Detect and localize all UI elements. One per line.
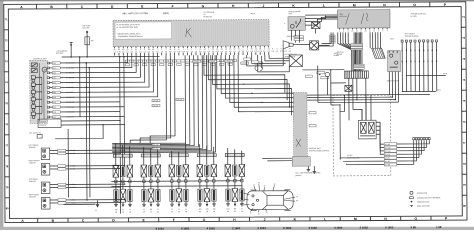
svg-text:1B: 1B [213,211,215,213]
label column left of harness [318,32,336,46]
junction dots on trunk crossings [79,56,90,93]
svg-text:O: O [414,217,417,221]
svg-text:J: J [264,218,266,222]
wire hydraulic unit row 4 [49,56,140,78]
svg-text:0.5 BR/GE: 0.5 BR/GE [66,107,74,109]
relay K14 [284,17,305,31]
handwritten X mark on strip [296,139,301,147]
svg-text:0.5 GE: 0.5 GE [70,153,75,155]
svg-text:M: M [354,217,357,221]
svg-text:0.5 GE/SW: 0.5 GE/SW [66,77,74,79]
svg-text:0.5: 0.5 [276,51,278,53]
wire harness run to ASC valve block [208,55,287,101]
svg-text:1B: 1B [206,211,208,213]
svg-text:4 1602: 4 1602 [334,226,343,230]
wire hydraulic unit row 12 [50,116,125,118]
svg-text:0 1602: 0 1602 [385,225,394,229]
car locator labels [240,182,298,215]
svg-text:3: 3 [378,30,379,32]
tie wire lower left [55,124,104,139]
svg-text:9: 9 [382,30,383,32]
small labels junction area [317,71,329,78]
wheel speed sensor B4 right rear [29,193,125,209]
svg-text:0 1601: 0 1601 [258,226,267,230]
svg-text:0.5 SW: 0.5 SW [153,105,159,107]
svg-text:BY SIDE: BY SIDE [410,16,416,18]
svg-text:0.5 RT: 0.5 RT [385,158,390,160]
svg-text:O: O [413,3,416,7]
relay K2 in hydraulic unit [31,69,37,73]
svg-text:0.5 SW: 0.5 SW [70,187,76,189]
pressure control valve assembly Y10 [359,120,377,139]
note check engine left [288,11,300,15]
wire harness run to valve row [112,55,207,150]
svg-text:X34: X34 [53,112,56,114]
svg-text:0.5 BL/RT: 0.5 BL/RT [66,87,73,89]
wire hydraulic unit row 3 [49,56,136,73]
svg-text:0.5 SW/VI: 0.5 SW/VI [66,82,74,84]
svg-text:31: 31 [157,209,159,211]
wires into valve assembly [340,95,371,159]
svg-text:0.5 SW: 0.5 SW [177,99,183,101]
svg-text:1B: 1B [129,211,131,213]
junction dots staircase [243,83,263,103]
note aux socket [405,32,419,37]
svg-text:15: 15 [253,184,255,186]
wire identification label row [125,60,236,66]
svg-text:CONTROL UNIT: CONTROL UNIT [309,148,321,150]
svg-text:X45: X45 [53,63,56,65]
wire harness run to ASC valve block [238,55,303,153]
svg-text:KL.15 ABS CONTROL 30/31: KL.15 ABS CONTROL 30/31 [117,26,139,29]
page scan shadow top edge [0,0,474,1]
terminal label stack right [384,143,397,167]
svg-text:5 88: 5 88 [411,225,417,229]
wire harness run to valve row [112,55,190,145]
connector X253 grid [344,71,368,78]
svg-text:0.5 SW: 0.5 SW [210,61,216,63]
wires from pins to actuator [247,49,290,72]
solenoid valve Y6 in hydraulic unit [31,112,42,118]
ground bus wire bottom left [64,203,96,205]
svg-text:0.5 SW: 0.5 SW [153,144,159,146]
note asc pressure control valve [295,171,320,177]
relay feed pin labels right of unit [271,48,291,53]
fan wires up to connector row [397,138,431,165]
wire trunk vertical sensor lines [86,63,90,201]
cluster pin labels [339,28,388,33]
svg-text:0.5 SW/VI: 0.5 SW/VI [66,92,74,94]
svg-text:45.0: 45.0 [437,89,440,91]
svg-text:LEFT: LEFT [288,13,292,15]
wire harness run to valve row [112,55,203,149]
svg-text:2 1602: 2 1602 [360,225,369,229]
legend connector symbol [410,191,428,195]
svg-text:4 1601: 4 1601 [207,226,216,230]
pin wire stubs [115,52,269,56]
wire trunk vertical A-line [79,57,81,117]
wire label stack A [351,43,363,49]
grid column letters top band [20,2,447,9]
wire hydraulic unit row 11 [50,111,120,113]
svg-text:SENSOR: SENSOR [29,196,37,198]
svg-text:0.5 GE: 0.5 GE [70,200,75,202]
actuator motor M2 [305,41,330,50]
wire trunk vertical left [67,129,69,197]
wire trunk vertical B-line [119,57,122,214]
vertical feeder right of strip [318,65,331,105]
grid column letters bottom band [21,216,448,223]
handwritten mark K on control unit [186,28,192,37]
svg-text:150: 150 [115,209,118,211]
relay pin labels [294,36,304,41]
wire harness from cluster left group [338,32,362,71]
svg-text:0.5 GE: 0.5 GE [70,150,75,152]
solenoid valve chain V14 [232,149,238,213]
svg-text:0.5 BR: 0.5 BR [385,144,391,146]
wheel speed sensor B3 left rear [29,177,125,193]
car top view locator [247,190,293,211]
svg-text:31: 31 [129,209,131,211]
svg-text:F: F [173,218,175,222]
solenoid valve chain V13 [225,148,231,213]
wire feeder to valve collectors [140,55,171,143]
svg-text:CHECK ENGINE: CHECK ENGINE [288,11,300,13]
svg-text:0.5: 0.5 [280,51,282,53]
connector arcs X18b [255,66,263,71]
wires inside hydraulic unit [39,63,47,121]
svg-text:SENSOR: SENSOR [29,181,37,183]
label terminal 30 lead [56,50,67,55]
svg-text:15: 15 [296,196,298,198]
note inside valve boundary [347,155,360,159]
svg-text:1B: 1B [185,211,187,213]
svg-text:150: 150 [213,209,216,211]
wire bus terminal 30 [62,56,160,58]
ABS control unit A35 [113,20,269,47]
grid row numbers left band [4,18,10,210]
strip top label [305,75,312,77]
svg-text:1B: 1B [115,212,117,214]
svg-text:30: 30 [240,198,242,200]
instrument cluster module [337,10,390,28]
svg-text:SEE FUSE: SEE FUSE [83,25,91,27]
svg-text:LEFT FRONT: LEFT FRONT [29,145,39,147]
svg-text:45 W: 45 W [443,73,447,75]
svg-text:5: 5 [343,31,344,33]
svg-text:0.5 GN/WS: 0.5 GN/WS [66,67,74,69]
solenoid valve chain V4 [141,147,147,213]
svg-text:55: 55 [296,200,298,202]
wire harness run to valve row [112,55,186,143]
note FU potential block [203,12,214,19]
svg-text:G: G [203,218,206,222]
solenoid valve Y5 in hydraulic unit [31,105,42,111]
footer fold references [156,225,442,231]
svg-text:0.5 GN: 0.5 GN [70,184,76,186]
svg-text:B12: B12 [227,208,230,210]
svg-text:OPTIL HP: OPTIL HP [339,16,346,18]
wire harness run to valve row [112,55,195,146]
valve cluster connector bar 3 [169,151,188,156]
wire label stack B [353,64,364,69]
svg-text:0.5 BR: 0.5 BR [385,164,391,166]
svg-text:55: 55 [266,212,268,214]
svg-text:CONNECTOR: CONNECTOR [417,193,428,195]
wire harness run to ASC valve block [217,55,292,116]
wire hydraulic unit row 6 [49,55,149,87]
solenoid valve chain V12 [211,147,217,213]
wire hydraulic unit row 1 [49,56,127,63]
svg-text:150: 150 [206,209,209,211]
solenoid valve Y1 in hydraulic unit [31,76,42,82]
tie wire actuator to X253 [302,69,344,71]
splice terminal 30 [70,42,73,57]
wires into label stack [340,122,384,165]
wire trunk vertical B2-line [123,57,126,167]
svg-text:G: G [202,4,205,8]
svg-text:21: 21 [360,30,362,32]
svg-text:6 1601: 6 1601 [181,226,190,230]
solenoid valve chain V7 [169,151,175,213]
wire connector labels on left rows [47,62,60,119]
solenoid valve chain V8 [176,152,182,213]
note asc pedal [334,52,339,57]
svg-text:2 1601: 2 1601 [232,226,241,230]
wire harness run to ASC valve block [204,55,285,93]
wire labels actuator feeds [244,58,259,63]
solenoid valve chain V15 [239,151,245,213]
svg-text:0.5 BL/RT: 0.5 BL/RT [67,116,74,118]
svg-text:SENSOR: SENSOR [29,162,37,164]
svg-text:0.5 GN/WS: 0.5 GN/WS [66,63,74,65]
actuator box with cross [289,55,302,67]
svg-text:0.5 BR: 0.5 BR [70,168,76,170]
svg-text:WIRE JUNCTION: WIRE JUNCTION [417,206,431,208]
wires X1307 down [389,72,398,103]
wire harness run to valve row [112,55,199,147]
svg-text:0.5: 0.5 [284,51,286,53]
solenoid valve Y4 in hydraulic unit [31,97,42,103]
wire hydraulic unit row 9 [50,101,120,103]
valve cluster connector bar 5 [225,151,244,156]
svg-text:M: M [44,70,46,72]
svg-text:0.5 GN/WS: 0.5 GN/WS [66,112,74,114]
wheel speed sensor B1 left front [29,144,125,159]
trailer bus wires [402,73,448,92]
svg-text:J: J [262,4,264,8]
hydraulic unit with pump motor [30,57,48,123]
svg-text:X51: X51 [53,107,56,109]
svg-text:M6: M6 [234,208,236,210]
connector X255 plate [38,119,125,128]
svg-text:0.5 SW: 0.5 SW [385,151,391,153]
wire harness run to valve row [112,55,212,151]
svg-text:THE PRESSURE CONTROL: THE PRESSURE CONTROL [309,150,330,152]
solenoid valve chain V6 [155,150,161,214]
note control unit pressure [309,148,330,153]
svg-text:8: 8 [348,31,349,33]
svg-text:1 88: 1 88 [436,225,442,229]
page scan shadow left edge [0,0,3,230]
svg-text:15: 15 [258,213,260,215]
svg-text:28: 28 [365,30,367,32]
note actuator asc [285,53,298,58]
wire hydraulic unit row 8 [49,55,157,97]
svg-text:0.5 BR/GE: 0.5 BR/GE [66,102,74,104]
pump motor M [42,67,47,72]
strip pin labels [309,112,316,127]
svg-text:X42: X42 [53,77,56,79]
svg-text:L: L [324,217,326,221]
svg-text:55: 55 [240,192,242,194]
solenoid valve chain V9 [183,143,189,213]
legend terminal symbol [410,196,441,199]
wire gauge labels under pins [113,51,270,54]
svg-text:31: 31 [122,209,124,211]
svg-text:18: 18 [356,31,358,33]
svg-text:20: 20 [373,30,375,32]
diode box K14a [311,22,320,34]
svg-text:(MRS): (MRS) [163,13,169,15]
svg-text:150: 150 [199,209,202,211]
wire harness run to ASC valve block [234,55,301,146]
svg-text:0.5 BR: 0.5 BR [70,165,76,167]
wire harness run to ASC valve block [212,55,289,108]
wire hydraulic unit row 2 [49,56,132,68]
svg-text:X17: X17 [53,117,56,119]
solenoid valve Y3 in hydraulic unit [31,90,42,96]
svg-text:30: 30 [264,185,266,187]
svg-text:31: 31 [95,210,97,212]
wire harness run to ASC valve block [225,55,296,131]
svg-text:L: L [323,4,325,8]
tie wires right middle [307,94,430,105]
throttle actuator horn [283,41,305,49]
svg-text:30: 30 [274,184,276,186]
svg-text:31: 31 [250,212,252,214]
svg-text:CONNECT: CONNECT [39,125,47,127]
svg-text:X59: X59 [53,92,56,94]
svg-text:6 1602: 6 1602 [309,226,318,230]
svg-text:MRS: MRS [339,14,343,16]
svg-text:31: 31 [178,209,180,211]
valve cluster connector bar 4 [197,151,216,156]
connector X339 pin number labels [114,46,270,51]
solenoid valve chain V10 [197,144,203,213]
wheel speed sensor B2 right front [29,160,125,175]
svg-text:0.5 SW: 0.5 SW [385,147,391,149]
note see fuse box [83,25,91,29]
valve supply bus wire [111,185,242,188]
svg-text:0.5 SW: 0.5 SW [226,61,232,63]
svg-text:0.5 SW: 0.5 SW [153,100,159,102]
wires relay down to actuator [292,30,300,42]
solenoid valve chain V3 [127,146,133,214]
connector circle X30 [325,72,330,95]
legend ground symbol [410,205,430,207]
svg-text:0.5 RT: 0.5 RT [385,161,390,163]
wire hydraulic unit row 5 [49,56,144,83]
svg-text:X18: X18 [53,97,56,99]
page scan shadow bottom edge [0,227,474,230]
svg-text:X22: X22 [53,68,56,70]
svg-text:8 1602: 8 1602 [283,226,292,230]
wire spec labels centre [152,60,264,151]
svg-text:X56: X56 [53,87,56,89]
wire harness run to ASC valve block [230,55,299,138]
svg-text:0.5: 0.5 [289,51,291,53]
wire hydraulic unit row 10 [50,106,125,108]
svg-text:8 1601: 8 1601 [156,227,165,230]
svg-text:16: 16 [352,31,354,33]
wire feeder to valve collectors [130,55,167,143]
wire harness run to ASC valve block [221,55,294,123]
relay K1 in hydraulic unit [31,63,37,67]
tie wires to ASC foot [262,158,292,161]
note abs asc speed [337,51,345,56]
dashed boundary pressure control valve [333,95,391,176]
svg-text:M6: M6 [150,209,152,211]
svg-text:45 W: 45 W [390,38,394,40]
fuse F34 [85,31,95,57]
svg-text:GROUND POINT: GROUND POINT [417,201,429,203]
svg-text:31: 31 [241,208,243,210]
svg-text:X36: X36 [53,102,56,104]
solenoid valve chain V1 [113,143,119,213]
svg-text:SENSOR: SENSOR [29,147,37,149]
svg-text:X22: X22 [53,82,56,84]
svg-text:EQUIPMENT CONNECTOR ALL: EQUIPMENT CONNECTOR ALL [118,35,143,38]
svg-text:FU: PORSCHE: FU: PORSCHE [203,12,214,14]
svg-text:X38: X38 [53,73,56,75]
junction dots valve area [339,95,345,106]
svg-text:0.5 GE/SW: 0.5 GE/SW [66,97,74,99]
trailer socket X451 pins [401,40,438,92]
legend junction symbol [411,201,430,204]
grid row numbers right band [461,16,467,208]
svg-text:7: 7 [387,30,388,32]
ground symbols right of valve row [307,166,317,174]
svg-text:F: F [172,4,174,8]
solenoid valve chain V2 [120,145,126,214]
svg-text:0.5: 0.5 [271,51,273,53]
ASC control unit strip [293,93,307,160]
solenoid valve chain V5 [148,148,154,213]
svg-text:20: 20 [369,30,371,32]
valve cluster connector bar 2 [141,152,160,157]
svg-text:31: 31 [143,209,145,211]
harness funnel to relay box [370,32,385,58]
valve cluster connector bar 1 [113,152,132,157]
solenoid valve Y2 in hydraulic unit [31,83,42,89]
svg-text:M: M [353,3,356,7]
wires relay to cluster [305,15,337,25]
svg-text:61: 61 [240,204,242,206]
wire harness run to valve row [112,55,216,152]
svg-text:31: 31 [171,209,173,211]
svg-text:X1 SET: X1 SET [347,155,353,157]
handwritten slash mark on cluster left [346,13,350,24]
solenoid valve chain V11 [204,146,210,214]
wire hydraulic unit row 7 [49,55,153,92]
svg-text:31: 31 [185,209,187,211]
wire feeder to valve collectors [150,55,175,143]
svg-text:0.5 GE: 0.5 GE [385,154,390,156]
label ADS connect [29,131,42,138]
ASC unit foot [292,157,310,167]
svg-text:0.5 BR/GE: 0.5 BR/GE [66,72,74,74]
